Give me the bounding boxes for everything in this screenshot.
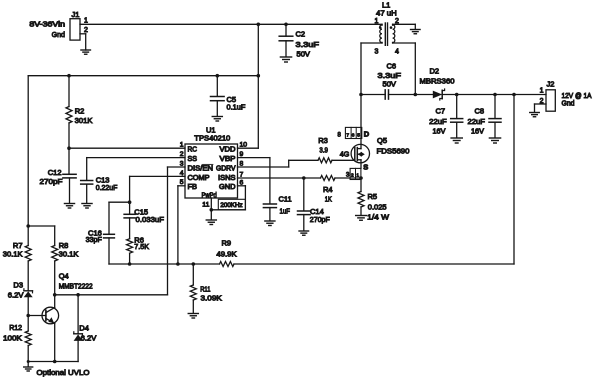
svg-text:5: 5 bbox=[357, 132, 360, 138]
svg-text:SS: SS bbox=[188, 156, 198, 163]
svg-text:270pF: 270pF bbox=[40, 177, 63, 186]
svg-text:1: 1 bbox=[540, 88, 544, 95]
svg-text:Q4: Q4 bbox=[59, 271, 69, 280]
svg-text:33pF: 33pF bbox=[86, 235, 103, 244]
svg-text:GDRV: GDRV bbox=[216, 165, 236, 172]
svg-text:4: 4 bbox=[395, 49, 399, 56]
svg-text:1K: 1K bbox=[325, 195, 332, 204]
svg-text:7: 7 bbox=[346, 132, 349, 138]
svg-text:8: 8 bbox=[240, 160, 244, 167]
svg-text:R4: R4 bbox=[323, 185, 333, 194]
svg-text:7: 7 bbox=[240, 171, 244, 178]
svg-text:C8: C8 bbox=[475, 106, 485, 115]
svg-text:1/4 W: 1/4 W bbox=[367, 213, 390, 222]
svg-text:J1: J1 bbox=[72, 10, 80, 19]
svg-text:DIS/EN: DIS/EN bbox=[188, 165, 214, 172]
svg-text:0.033uF: 0.033uF bbox=[136, 215, 165, 224]
svg-text:ISNS: ISNS bbox=[218, 175, 236, 182]
svg-text:Q5: Q5 bbox=[377, 136, 387, 145]
svg-text:22uF: 22uF bbox=[429, 117, 447, 126]
svg-text:30.1K: 30.1K bbox=[59, 249, 79, 258]
svg-text:R3: R3 bbox=[318, 136, 328, 145]
svg-text:VBP: VBP bbox=[220, 156, 236, 163]
svg-text:TPS40210: TPS40210 bbox=[194, 133, 230, 142]
svg-text:47 uH: 47 uH bbox=[376, 8, 397, 17]
svg-text:30.1K: 30.1K bbox=[3, 249, 23, 258]
svg-text:C11: C11 bbox=[279, 194, 292, 203]
svg-text:D4: D4 bbox=[79, 324, 89, 333]
svg-text:16V: 16V bbox=[433, 126, 446, 135]
svg-text:Optional UVLO: Optional UVLO bbox=[37, 368, 90, 377]
svg-text:100K: 100K bbox=[3, 333, 22, 342]
svg-text:5: 5 bbox=[180, 179, 184, 186]
svg-text:3.3uF: 3.3uF bbox=[296, 40, 320, 49]
svg-text:RC: RC bbox=[188, 147, 198, 154]
svg-text:J2: J2 bbox=[547, 79, 555, 88]
svg-text:Gnd: Gnd bbox=[562, 99, 575, 108]
svg-text:0.22uF: 0.22uF bbox=[96, 183, 118, 192]
svg-text:8V-36Vin: 8V-36Vin bbox=[29, 20, 65, 29]
svg-text:C6: C6 bbox=[387, 61, 397, 70]
svg-text:Gnd: Gnd bbox=[52, 30, 65, 39]
svg-text:C2: C2 bbox=[296, 30, 306, 39]
svg-text:3.9: 3.9 bbox=[319, 145, 328, 154]
svg-text:11: 11 bbox=[202, 202, 209, 209]
svg-text:FDS5690: FDS5690 bbox=[377, 147, 410, 156]
svg-text:3: 3 bbox=[180, 160, 184, 167]
svg-text:R2: R2 bbox=[75, 106, 85, 115]
svg-text:R12: R12 bbox=[9, 323, 22, 332]
svg-text:200KHz: 200KHz bbox=[220, 202, 242, 209]
svg-text:6: 6 bbox=[352, 132, 355, 138]
svg-text:S: S bbox=[363, 163, 368, 172]
svg-text:301K: 301K bbox=[75, 116, 93, 125]
svg-text:6.2V: 6.2V bbox=[8, 291, 24, 300]
svg-text:22uF: 22uF bbox=[468, 117, 486, 126]
svg-text:0.1uF: 0.1uF bbox=[227, 103, 246, 112]
svg-text:6.2V: 6.2V bbox=[81, 333, 97, 342]
svg-text:16V: 16V bbox=[471, 126, 484, 135]
svg-text:VDD: VDD bbox=[220, 147, 236, 154]
svg-text:4G: 4G bbox=[340, 152, 350, 159]
svg-text:1uF: 1uF bbox=[280, 206, 291, 215]
svg-text:PwPd: PwPd bbox=[202, 192, 217, 199]
svg-text:R5: R5 bbox=[368, 192, 378, 201]
svg-text:50V: 50V bbox=[297, 50, 311, 59]
svg-text:D3: D3 bbox=[13, 280, 23, 289]
svg-text:R11: R11 bbox=[200, 284, 210, 293]
svg-text:R9: R9 bbox=[222, 238, 232, 247]
svg-text:2: 2 bbox=[84, 27, 88, 34]
svg-text:9: 9 bbox=[240, 151, 244, 158]
svg-text:COMP: COMP bbox=[188, 175, 210, 182]
svg-text:49.9K: 49.9K bbox=[216, 249, 236, 258]
svg-text:0.025: 0.025 bbox=[368, 203, 387, 212]
svg-text:1: 1 bbox=[180, 142, 184, 149]
svg-text:1: 1 bbox=[375, 18, 379, 25]
svg-text:7.5K: 7.5K bbox=[134, 242, 149, 251]
svg-text:MMBT2222: MMBT2222 bbox=[59, 282, 93, 291]
svg-text:270pF: 270pF bbox=[310, 215, 330, 224]
svg-text:D2: D2 bbox=[430, 66, 440, 75]
svg-text:2: 2 bbox=[351, 172, 354, 178]
svg-text:FB: FB bbox=[188, 184, 198, 191]
svg-text:50V: 50V bbox=[383, 79, 397, 88]
svg-text:1: 1 bbox=[84, 18, 88, 25]
svg-text:MBRS360: MBRS360 bbox=[420, 76, 455, 85]
svg-text:D: D bbox=[364, 130, 370, 139]
svg-text:C7: C7 bbox=[436, 106, 446, 115]
svg-text:10: 10 bbox=[240, 142, 248, 149]
svg-text:3: 3 bbox=[375, 49, 379, 56]
svg-text:2: 2 bbox=[180, 151, 184, 158]
svg-text:GND: GND bbox=[219, 184, 236, 191]
svg-text:1: 1 bbox=[356, 172, 359, 178]
svg-text:3.09K: 3.09K bbox=[201, 293, 222, 302]
